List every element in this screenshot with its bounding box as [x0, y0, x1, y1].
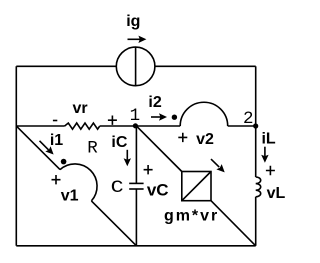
svg-text:vr: vr — [73, 100, 88, 117]
svg-text:1: 1 — [130, 106, 141, 126]
svg-text:v2: v2 — [196, 131, 214, 148]
svg-text:C: C — [111, 178, 124, 198]
svg-text:R: R — [87, 139, 98, 159]
svg-text:iC: iC — [111, 134, 127, 151]
svg-text:v1: v1 — [61, 188, 79, 205]
svg-text:2: 2 — [243, 109, 254, 129]
svg-text:vL: vL — [267, 185, 286, 202]
svg-text:i1: i1 — [50, 132, 63, 149]
svg-text:i2: i2 — [148, 94, 161, 111]
svg-text:gm*vr: gm*vr — [164, 207, 219, 224]
svg-text:iL: iL — [261, 131, 275, 148]
svg-text:ig: ig — [126, 13, 140, 30]
svg-text:vC: vC — [147, 180, 169, 199]
